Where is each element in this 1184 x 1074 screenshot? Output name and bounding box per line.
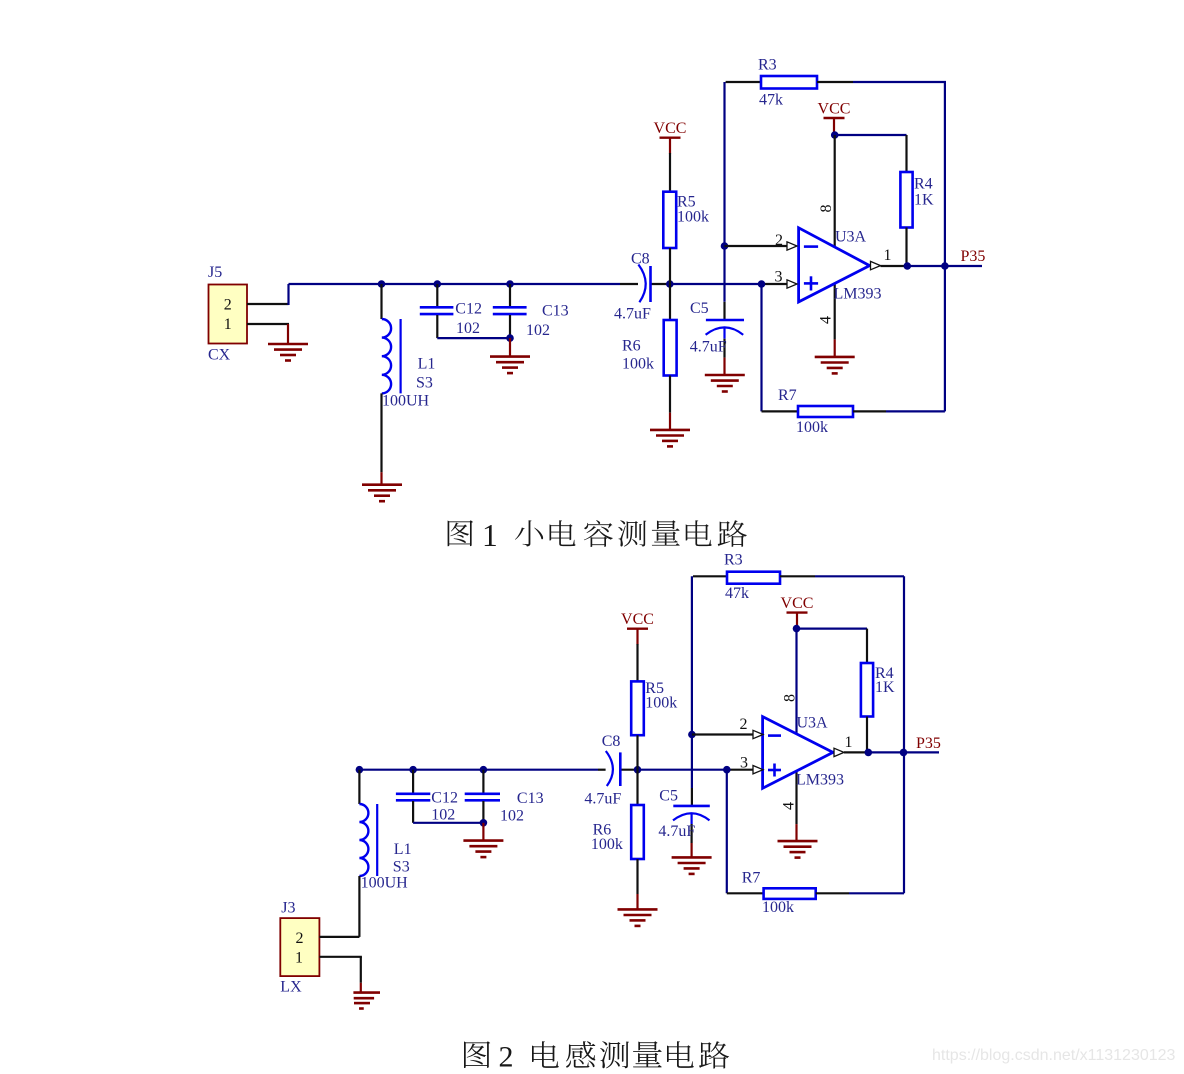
resistor R6 <box>636 770 638 805</box>
wire pin 2 stub <box>692 733 753 735</box>
svg-text:100k: 100k <box>796 419 828 436</box>
svg-text:C8: C8 <box>631 251 650 268</box>
op-amp U3A <box>763 717 833 789</box>
capacitor C12 <box>436 284 438 306</box>
resistor R4 <box>835 134 907 136</box>
ground C13 <box>490 355 530 358</box>
junction VCC pin8-R4 <box>793 625 801 633</box>
junction minus node pin 2 <box>721 242 729 250</box>
svg-text:100k: 100k <box>591 836 623 853</box>
svg-text:2: 2 <box>740 716 748 733</box>
wire J5 pin 2 to bus <box>247 303 289 305</box>
wire J3 pin 2 to L1 <box>319 936 359 938</box>
svg-text:4: 4 <box>818 316 835 324</box>
junction output-right vertical <box>941 262 949 270</box>
capacitor C8 <box>606 751 613 786</box>
junction bus-C12 <box>434 280 442 288</box>
svg-text:VCC: VCC <box>818 101 851 118</box>
wire op-amp pin 8 <box>795 629 797 734</box>
junction bus-R5-R6 <box>666 280 674 288</box>
wire minus node vertical <box>691 576 693 788</box>
wire output to P35 <box>907 265 945 267</box>
junction C13 bottom <box>480 819 488 827</box>
svg-text:4.7uF: 4.7uF <box>658 823 695 840</box>
wire op-amp pin 4 <box>795 771 797 824</box>
inductor L1 <box>380 284 382 319</box>
wire L1 to ground <box>380 393 382 472</box>
capacitor C13 <box>482 770 484 793</box>
svg-text:2: 2 <box>775 232 783 249</box>
svg-text:2: 2 <box>296 930 304 947</box>
svg-text:S3: S3 <box>416 375 433 392</box>
svg-text:102: 102 <box>431 807 455 824</box>
ground L1 <box>362 483 402 486</box>
svg-text:102: 102 <box>456 320 480 337</box>
svg-text:C12: C12 <box>455 301 482 318</box>
svg-text:C13: C13 <box>517 790 544 807</box>
junction output-R4 <box>865 749 873 757</box>
resistor R7 <box>764 888 816 899</box>
junction bus-pin3 <box>758 280 766 288</box>
svg-text:R3: R3 <box>758 57 777 74</box>
svg-text:1: 1 <box>224 316 232 333</box>
junction bus-pin3 <box>723 766 731 774</box>
capacitor C13 <box>509 284 511 306</box>
wire C13 to ground <box>509 338 511 357</box>
wire C13 to ground <box>482 823 484 841</box>
junction bus-C13 <box>480 766 488 774</box>
ground R6 <box>618 908 658 911</box>
svg-text:CX: CX <box>208 347 231 364</box>
inductor L1 <box>358 770 360 804</box>
svg-text:1: 1 <box>482 518 498 553</box>
wire right vertical <box>903 576 905 893</box>
ground R6 <box>650 429 690 432</box>
svg-text:1K: 1K <box>875 679 895 696</box>
svg-text:P35: P35 <box>961 248 986 265</box>
wire J3 pin 1 to ground <box>319 956 362 958</box>
resistor R3 <box>693 575 727 577</box>
svg-text:3: 3 <box>740 754 748 771</box>
ground C5 <box>672 856 712 859</box>
connector J5 <box>209 285 248 344</box>
resistor R5 <box>636 644 638 681</box>
wire C5 to ground <box>723 358 725 375</box>
svg-text:C12: C12 <box>431 790 458 807</box>
svg-text:C5: C5 <box>690 300 709 317</box>
svg-text:100k: 100k <box>677 209 709 226</box>
junction output-R4 <box>904 262 912 270</box>
op-amp U3A <box>799 228 870 302</box>
wire R6 to ground <box>669 413 671 430</box>
ground C5 <box>705 374 745 377</box>
ground J3 <box>353 991 380 994</box>
wire plus node to R7 <box>726 770 728 894</box>
svg-text:LM393: LM393 <box>834 286 882 303</box>
wire output to P35 <box>868 751 903 753</box>
junction output-right vertical <box>900 749 908 757</box>
capacitor C5 <box>706 319 744 322</box>
svg-text:R3: R3 <box>724 552 743 569</box>
svg-text:100UH: 100UH <box>361 875 409 892</box>
wire L1 to J3 <box>358 876 360 937</box>
svg-text:4.7uF: 4.7uF <box>690 339 727 356</box>
junction C13 bottom <box>506 334 514 342</box>
svg-text:1: 1 <box>884 247 892 264</box>
svg-text:J3: J3 <box>281 900 295 917</box>
svg-text:1: 1 <box>845 734 853 751</box>
svg-text:1K: 1K <box>914 192 934 209</box>
capacitor C5 <box>673 805 710 808</box>
resistor R6 <box>669 284 671 320</box>
ground U3A pin 4 <box>778 840 818 843</box>
svg-text:C8: C8 <box>602 733 621 750</box>
wire C12 to C13 bottom <box>413 822 483 824</box>
svg-text:P35: P35 <box>916 735 941 752</box>
svg-text:VCC: VCC <box>621 611 654 628</box>
junction minus node pin 2 <box>688 731 696 739</box>
svg-text:8: 8 <box>782 694 799 702</box>
wire output pin 1 <box>844 751 868 753</box>
wire output pin 1 <box>881 265 908 267</box>
junction bus-R5-R6 <box>634 766 642 774</box>
svg-text:LM393: LM393 <box>796 771 844 788</box>
svg-text:R6: R6 <box>622 338 641 355</box>
junction bus-C12 <box>409 766 417 774</box>
svg-text:3: 3 <box>775 268 783 285</box>
wire pin 2 stub <box>725 245 788 247</box>
resistor R4 <box>797 627 868 629</box>
svg-text:VCC: VCC <box>781 595 814 612</box>
wire C12 to C13 bottom <box>437 337 510 339</box>
svg-text:S3: S3 <box>393 858 410 875</box>
wire plus node to R7 <box>760 284 762 411</box>
svg-text:100k: 100k <box>762 899 794 916</box>
svg-text:2: 2 <box>224 296 232 313</box>
svg-text:J5: J5 <box>208 264 222 281</box>
svg-text:102: 102 <box>526 322 550 339</box>
wire main bus net LX <box>359 769 598 771</box>
wire right vertical <box>944 82 946 411</box>
svg-text:R7: R7 <box>742 870 761 887</box>
resistor R7 <box>798 406 853 417</box>
svg-text:100k: 100k <box>622 356 654 373</box>
wire op-amp pin 4 <box>834 283 836 339</box>
svg-text:C5: C5 <box>659 787 678 804</box>
svg-text:U3A: U3A <box>797 715 829 732</box>
svg-text:4: 4 <box>781 802 798 810</box>
wire J5 pin 1 to ground <box>247 323 289 325</box>
junction bus-C13 <box>506 280 514 288</box>
svg-text:8: 8 <box>818 205 835 213</box>
wire R6 to ground <box>636 894 638 909</box>
junction VCC pin8-R4 <box>831 131 839 139</box>
wire op-amp pin 8 <box>834 135 836 247</box>
svg-text:47k: 47k <box>725 585 749 602</box>
svg-text:4.7uF: 4.7uF <box>584 791 621 808</box>
svg-text:L1: L1 <box>394 841 412 858</box>
svg-text:C13: C13 <box>542 303 569 320</box>
svg-text:R7: R7 <box>778 387 797 404</box>
svg-text:VCC: VCC <box>654 120 687 137</box>
caption figure 1 <box>448 520 473 546</box>
svg-text:LX: LX <box>280 979 302 996</box>
svg-text:R4: R4 <box>914 176 933 193</box>
resistor R5 <box>669 153 671 192</box>
svg-text:2: 2 <box>499 1040 514 1073</box>
capacitor C8 <box>638 265 645 303</box>
svg-text:100UH: 100UH <box>382 393 430 410</box>
capacitor C12 <box>412 770 414 793</box>
svg-text:https://blog.csdn.net/x1131230: https://blog.csdn.net/x1131230123 <box>932 1047 1176 1064</box>
ground C13 <box>463 839 503 842</box>
svg-text:47k: 47k <box>759 92 783 109</box>
ground J5 <box>268 343 308 346</box>
svg-text:102: 102 <box>500 808 524 825</box>
wire C5 to ground <box>690 843 692 857</box>
resistor R3 <box>726 81 761 83</box>
wire main bus net CX <box>289 283 621 285</box>
svg-text:4.7uF: 4.7uF <box>614 306 651 323</box>
junction bus-L1 <box>378 280 386 288</box>
svg-text:U3A: U3A <box>835 229 867 246</box>
connector J3 <box>280 918 319 976</box>
svg-text:L1: L1 <box>418 356 436 373</box>
ground U3A pin 4 <box>815 356 855 359</box>
svg-text:1: 1 <box>295 950 303 967</box>
junction bus-L1 <box>356 766 364 774</box>
caption figure 2 <box>464 1041 490 1068</box>
svg-text:100k: 100k <box>645 695 677 712</box>
wire minus node vertical <box>723 82 725 302</box>
